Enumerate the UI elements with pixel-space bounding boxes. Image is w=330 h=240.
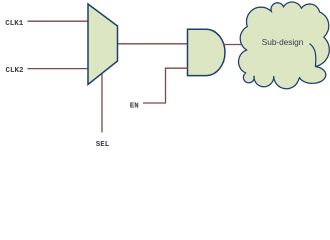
- Sub-design label: [262, 37, 304, 47]
- node CLK2 label: [6, 67, 25, 75]
- svg-text:EN: EN: [130, 102, 139, 110]
- svg-text:CLK2: CLK2: [6, 67, 25, 75]
- wire SEL to mux select input: [101, 74, 103, 133]
- Sub-design cloud: [239, 2, 330, 89]
- node SEL label: [96, 141, 110, 149]
- wire AND gate output to Sub-design cloud: [223, 44, 242, 46]
- wire CLK1 to mux: [28, 20, 90, 22]
- cloud inner curl: [310, 44, 316, 67]
- svg-text:SEL: SEL: [96, 141, 110, 149]
- multiplexer U1: [88, 4, 118, 85]
- node CLK1 label: [5, 20, 24, 28]
- wire EN to AND gate: [143, 68, 188, 103]
- svg-text:Sub-design: Sub-design: [262, 37, 304, 47]
- wire CLK2 to mux: [28, 68, 90, 70]
- wire mux output to AND gate: [118, 43, 188, 45]
- node EN label: [130, 102, 139, 110]
- svg-text:CLK1: CLK1: [5, 20, 24, 28]
- AND gate U2: [188, 29, 225, 75]
